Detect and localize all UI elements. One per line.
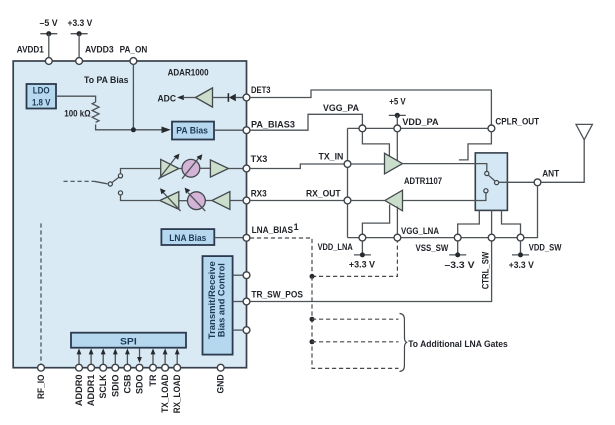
SPI pin TX_LOAD [160,348,170,412]
wire RX phase to VGA [179,200,188,202]
svg-text:RX_LOAD: RX_LOAD [172,374,182,413]
svg-text:To Additional LNA Gates: To Additional LNA Gates [408,339,508,349]
switch SW1 lever [112,177,119,182]
brace [400,314,408,372]
wire switch to VSS_SW [458,210,480,234]
svg-text:–3.3 V: –3.3 V [445,260,475,270]
arrow to ADC [177,95,196,100]
wire VGA to phase [179,168,182,170]
RX VGA [160,188,181,211]
wire amp to RX phase [205,200,212,202]
svg-text:ADDR0: ADDR0 [74,375,84,407]
LDO U2 [27,84,57,109]
stub TR pin TR_SW_POS [233,290,303,305]
LNA Bias box [161,229,214,245]
wire common to ANT [499,181,534,183]
PA amp ADTR [385,153,403,174]
label ADAR1000 [168,67,209,77]
junction PA_ON/PA Bias [131,127,136,132]
svg-text:VGG_PA: VGG_PA [323,103,359,113]
svg-text:RX_OUT: RX_OUT [306,189,341,199]
label To PA Bias [84,75,129,85]
pin VDD_PA [394,117,439,132]
switch SW2 poles [484,171,489,193]
dashed RF_IO riser [40,223,42,364]
svg-text:ADAR1000: ADAR1000 [168,67,209,77]
wire LDO to resistor [56,96,96,102]
pin VDD_LNA [318,234,366,252]
wire resistor to PA Bias [96,124,162,129]
TR bias control box [203,256,233,355]
pin VDD_SW [517,234,562,252]
RX LNA amp [212,192,230,210]
junction gate 2 [310,339,315,344]
svg-text:TX_IN: TX_IN [319,152,344,162]
wire RX3 to amp [230,200,243,202]
wire amp to diode [213,97,229,99]
ADAR1000 block [13,61,246,368]
ADTR1107 bottom rail [348,186,538,238]
SPI pin TR [148,348,158,386]
pin AVDD1 [17,44,52,64]
dashed gate stub 1 [312,318,399,320]
wire VGG_PA to PA gate [362,132,389,158]
svg-text:PA_ON: PA_ON [120,44,148,54]
pin PA_BIAS3 [243,120,295,134]
wire switch to VDD_SW [502,210,521,234]
supply -5V [40,18,58,57]
svg-text:RX3: RX3 [251,189,267,199]
TX VGA [159,154,180,180]
svg-text:TR: TR [148,374,158,386]
svg-text:LNA Bias: LNA Bias [169,233,206,243]
dashed to VGG_LNA [312,241,397,276]
svg-text:TX_LOAD: TX_LOAD [160,374,170,413]
wire PA Bias to pin [214,129,243,131]
resistor 100k [64,102,99,122]
svg-text:TX3: TX3 [251,154,268,164]
antenna [541,124,593,182]
junction gate 1 [310,317,315,322]
svg-text:RF_IO: RF_IO [36,375,46,400]
ADTR1107 left rail [347,128,349,237]
svg-text:1.8 V: 1.8 V [32,97,51,107]
svg-text:LNA_BIAS: LNA_BIAS [252,225,294,235]
svg-text:CPLR_OUT: CPLR_OUT [495,117,539,127]
wire switch to LNA in [403,193,486,201]
svg-text:ANT: ANT [542,169,559,179]
svg-text:1: 1 [294,222,299,232]
wire PA into switch pole [475,164,487,172]
wire pole to TX line [121,169,161,174]
wire switch to CTRL_SW [491,210,493,234]
pin RF_IO [36,364,46,399]
svg-text:SPI: SPI [120,337,137,347]
dashed gate stub 2 [312,341,399,343]
coupler line [459,132,492,160]
stub TR pin 1 [233,272,250,279]
pin TX_IN [319,152,351,168]
svg-text:VGG_LNA: VGG_LNA [401,226,439,236]
SPI pin ADDR0 [74,348,84,406]
supply +3.3V (VDD_LNA) [349,241,375,269]
SPI pin SDO [135,348,145,394]
wire VGA to switch pole [121,195,160,201]
wire TR_SW_POS to CTRL_SW [250,241,492,301]
svg-text:PA_BIAS3: PA_BIAS3 [251,120,295,130]
ADTR1107 top rail [348,127,489,129]
svg-text:SCLK: SCLK [98,374,108,398]
pin PA_ON [120,44,148,64]
svg-text:PA Bias: PA Bias [176,126,208,136]
SPI pin SDIO [110,348,120,397]
pin VGG_LNA [394,226,439,241]
svg-text:VSS_SW: VSS_SW [416,243,449,253]
supply -3.3V (VSS_SW) [445,241,475,270]
label ADTR1107 [404,176,442,186]
wire PA_BIAS3 to VGG_PA [250,114,363,130]
PA Bias box [172,122,214,140]
pin GND [216,364,226,393]
wire VDD_PA to PA [396,132,398,161]
TX driver amp [210,160,228,177]
wire amp to TX3 [228,168,243,170]
wire PA_ON down [132,64,134,129]
svg-text:GND: GND [216,374,226,393]
arrow into PA Bias [162,127,171,134]
svg-text:+3.3 V: +3.3 V [509,260,534,270]
switch SW2 common [495,181,499,185]
svg-text:Bias and Control: Bias and Control [217,263,227,337]
switch box T/R [475,153,507,211]
svg-text:SDIO: SDIO [110,375,120,398]
node CTRL_SW [480,234,495,289]
switch SW1 poles [118,174,122,195]
LNA amp ADTR [385,190,403,211]
svg-text:+3.3 V: +3.3 V [349,259,375,269]
svg-text:–5 V: –5 V [40,18,58,28]
RX phase shifter [185,188,206,211]
wire DET3 to coupler out [250,90,492,125]
SPI pin CSB [122,348,132,393]
wire TX_IN to PA [351,163,385,165]
svg-text:AVDD3: AVDD3 [85,44,114,54]
pin RX3 [243,189,267,204]
pin AVDD3 [76,44,114,64]
wire VGG_LNA to LNA [396,207,398,235]
SPI pin RX_LOAD [172,348,182,413]
SPI pin SCLK [98,348,108,398]
pin RX_OUT [306,189,351,204]
label To Additional LNA Gates [408,339,508,349]
supply +3.3V (AVDD3) [68,18,93,57]
svg-text:TR_SW_POS: TR_SW_POS [251,290,303,300]
switch SW2 lever [489,175,495,181]
SPI box [71,333,186,348]
node VGG_PA [359,125,366,132]
diode D1 [228,93,243,102]
wire phase to amp [200,167,211,169]
label ADC [158,94,177,104]
amp det buffer [196,88,213,107]
svg-text:ADTR1107: ADTR1107 [404,176,442,186]
supply +3.3V (VDD_SW) [509,241,534,270]
TX phase shifter [182,154,202,179]
supply +5V [389,97,406,125]
wire LNA out to RX_OUT [351,200,385,202]
dashed RF stub to switch [64,180,95,182]
junction LNA_BIAS [310,274,315,279]
svg-text:SDO: SDO [135,375,145,395]
svg-text:ADC: ADC [158,94,177,104]
switch SW1 common [108,182,112,186]
SPI pin ADDR1 [86,348,96,406]
wire VDD_LNA to LNA [362,205,389,235]
pin VSS_SW [416,234,462,253]
svg-text:VDD_PA: VDD_PA [402,117,439,127]
svg-text:VDD_LNA: VDD_LNA [318,242,354,252]
svg-text:AVDD1: AVDD1 [17,44,44,54]
wire LNA Bias to pin [214,237,243,239]
pin ANT [534,169,560,186]
svg-text:DET3: DET3 [251,85,271,95]
svg-text:Transmit/Receive: Transmit/Receive [207,261,217,339]
svg-text:LDO: LDO [33,85,50,95]
svg-text:To PA Bias: To PA Bias [84,75,129,85]
svg-text:100 kΩ: 100 kΩ [64,108,90,118]
pin TX3 [243,154,267,172]
wire stub to switch common [94,181,107,184]
label VGG_PA [323,103,359,113]
dashed down to gates [312,276,399,368]
wire TX3 to TX_IN jog [250,164,344,169]
svg-text:+5 V: +5 V [389,97,405,107]
pin CPLR_OUT [488,117,540,132]
svg-text:CSB: CSB [122,374,132,393]
svg-text:ADDR1: ADDR1 [86,375,96,407]
wire PA out to switch [403,163,476,165]
svg-text:VDD_SW: VDD_SW [529,243,562,253]
pin DET3 [243,85,270,101]
svg-text:+3.3 V: +3.3 V [68,18,93,28]
dashed LNA_BIAS net [250,238,312,276]
wire RX3 to RX_OUT [250,200,344,202]
svg-text:CTRL_SW: CTRL_SW [480,251,490,289]
pin LNA_BIAS1 [243,222,299,241]
stub TR pin 3 [233,327,250,334]
